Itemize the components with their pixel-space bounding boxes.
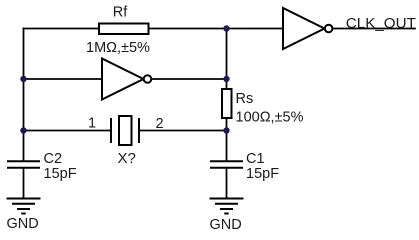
svg-text:1MΩ,±5%: 1MΩ,±5% [86, 40, 150, 56]
svg-text:X?: X? [118, 150, 136, 167]
svg-text:15pF: 15pF [246, 166, 279, 182]
svg-text:Rf: Rf [113, 5, 128, 21]
svg-text:GND: GND [210, 217, 242, 233]
svg-text:15pF: 15pF [44, 166, 77, 182]
svg-text:GND: GND [7, 216, 39, 232]
svg-text:100Ω,±5%: 100Ω,±5% [236, 110, 304, 126]
svg-text:2: 2 [155, 116, 163, 132]
svg-text:CLK_OUT: CLK_OUT [346, 15, 416, 32]
svg-text:C1: C1 [246, 151, 265, 167]
svg-text:C2: C2 [44, 151, 63, 167]
svg-text:1: 1 [88, 116, 96, 132]
svg-text:Rs: Rs [236, 91, 254, 107]
